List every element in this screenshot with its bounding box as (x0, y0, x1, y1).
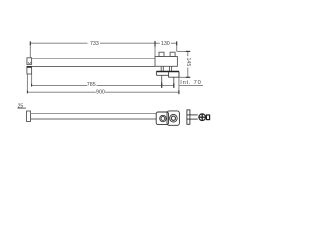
svg-text:900: 900 (96, 89, 105, 95)
svg-text:733: 733 (90, 41, 99, 47)
svg-text:Int. 70: Int. 70 (180, 80, 201, 86)
svg-text:785: 785 (87, 82, 96, 88)
svg-text:25: 25 (18, 104, 24, 110)
svg-text:130: 130 (161, 41, 170, 47)
svg-text:145: 145 (185, 58, 191, 67)
